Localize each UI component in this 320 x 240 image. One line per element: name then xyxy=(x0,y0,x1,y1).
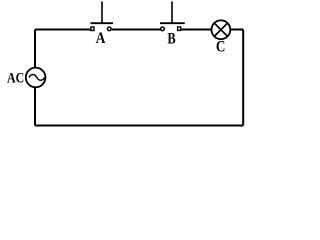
wire top-right: lamp C to right corner xyxy=(230,29,243,31)
switch B circle terminal xyxy=(161,27,165,31)
AC source circle xyxy=(26,68,46,88)
switch A square terminal xyxy=(91,27,94,31)
svg-text:AC: AC xyxy=(7,70,24,86)
AC sine wave xyxy=(29,75,45,81)
switch B bar xyxy=(160,22,185,24)
switch A bar xyxy=(91,22,114,24)
svg-text:C: C xyxy=(216,39,226,56)
lamp C circle xyxy=(212,20,231,39)
wire A circle to B circle xyxy=(112,29,161,31)
lamp C cross line 2 xyxy=(214,23,227,36)
lamp C cross line 1 xyxy=(214,23,227,36)
svg-text:A: A xyxy=(96,30,106,47)
switch B stem xyxy=(171,1,173,23)
wire right side xyxy=(242,30,244,126)
wire B square to lamp C xyxy=(182,29,214,31)
switch A circle terminal xyxy=(107,27,111,31)
wire top-left: node to switch A square terminal xyxy=(35,29,90,31)
svg-text:B: B xyxy=(167,30,175,48)
switch A stem xyxy=(101,1,103,23)
wire bottom xyxy=(35,125,243,127)
switch B square terminal xyxy=(178,27,181,31)
wire left side (through AC source) xyxy=(34,30,36,126)
